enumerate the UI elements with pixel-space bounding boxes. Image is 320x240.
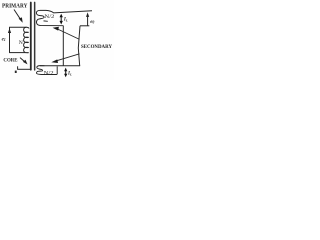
current arrow IL top (double-headed): [60, 16, 62, 22]
wire secondary top output: [53, 11, 92, 13]
svg-text:N: N: [19, 40, 23, 46]
svg-text:SECONDARY: SECONDARY: [81, 44, 112, 50]
wire right vertical (bottom terminal lead): [78, 26, 80, 66]
arrowhead up on e1 wire: [8, 28, 11, 33]
wire bottom output terminal tick: [80, 25, 89, 27]
svg-text:CORE: CORE: [3, 57, 18, 63]
leader arrow from SECONDARY to top winding: [58, 29, 80, 39]
wire secondary bottom horizontal: [40, 65, 80, 67]
svg-text:e1: e1: [2, 36, 6, 42]
fragment blob mark: [15, 71, 17, 73]
wire top-left horizontal: [9, 26, 26, 28]
secondary top winding N/2: [36, 10, 63, 25]
leader arrow from CORE to core: [20, 58, 25, 62]
secondary bottom winding N/2: [36, 66, 57, 75]
current arrow IL bottom (double-headed): [65, 70, 67, 75]
svg-text:N/2: N/2: [44, 70, 54, 76]
node e1 input terminal wire (left vertical): [9, 27, 11, 52]
wire bottom-left horizontal: [9, 52, 25, 54]
leader arrow from PRIMARY to primary coil: [14, 10, 20, 20]
svg-text:PRIMARY: PRIMARY: [2, 4, 28, 10]
wire center tap vertical: [62, 26, 64, 66]
inductor primary winding N: [24, 27, 29, 53]
core right bar: [34, 2, 36, 71]
wire from bottom winding lower end up: [56, 66, 58, 73]
svg-text:IL: IL: [67, 72, 72, 77]
fragment wire bottom-left with tick: [17, 66, 19, 69]
svg-text:IL: IL: [63, 18, 68, 23]
svg-text:N/2: N/2: [44, 14, 54, 20]
svg-text:e0: e0: [90, 19, 94, 25]
voltage arrow e0: [87, 16, 89, 26]
leader arrow from SECONDARY to bottom winding: [56, 54, 80, 61]
core left bar: [30, 2, 32, 71]
